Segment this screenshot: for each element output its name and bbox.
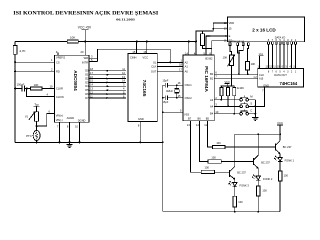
svg-text:D5: D5 — [85, 88, 89, 92]
svg-text:FONK 1: FONK 1 — [285, 158, 295, 162]
svg-text:DGND: DGND — [78, 119, 86, 123]
wire T1 collector to rail — [279, 134, 281, 141]
junction 10K bottom / PIC B3 riser — [205, 48, 207, 50]
svg-text:A0: A0 — [185, 69, 189, 73]
junction PTC on ground bus — [36, 141, 38, 143]
wire PIC B2 riser to LCD RS row — [212, 41, 228, 55]
svg-text:FONK 2: FONK 2 — [263, 177, 273, 181]
wire SL row to PIC A2 — [157, 61, 183, 63]
svg-text:4MHz: 4MHz — [166, 89, 173, 93]
svg-text:06.11.2003: 06.11.2003 — [116, 17, 135, 21]
resistor 10K (LCD pin16 to CLK row) — [246, 45, 256, 75]
LCD module body — [227, 17, 304, 42]
wires ADC bottom pins to ground bus — [60, 125, 80, 142]
ADC bottom pin stubs 7 8 10 — [57, 122, 80, 128]
wire T2 emitter down — [257, 168, 259, 176]
wire pot bottom to pull-up bar — [230, 66, 232, 86]
wire D5 row (ADC 13 to 165 4) — [89, 89, 126, 91]
svg-text:CINH: CINH — [130, 55, 136, 59]
junction rail on left ground bus — [162, 141, 164, 143]
pin 9 stub (VREF/2) — [56, 50, 66, 60]
transistor Q2 BC237 (middle) — [254, 155, 271, 168]
svg-text:BC 237: BC 237 — [237, 170, 246, 174]
svg-text:AGND: AGND — [67, 116, 75, 120]
wire PIC B0 to 74HC164 CLK — [214, 73, 258, 75]
junction VCC bus / ADC pin20 — [84, 41, 86, 43]
wire top VCC bus right of resistor — [78, 41, 196, 43]
svg-text:74HC164: 74HC164 — [280, 81, 298, 86]
resistor 100 (base T2) — [208, 155, 254, 163]
wire OSC1 row — [163, 84, 183, 86]
ADC data labels D0-D7 inside right edge — [85, 69, 89, 100]
wire PIC B1 to 74HC164 A,B — [214, 77, 258, 79]
crystal 4MHz — [166, 85, 179, 98]
svg-text:D6: D6 — [85, 92, 89, 96]
junction CS on rail — [14, 61, 16, 63]
wire T3 collector to rail — [234, 134, 236, 166]
svg-text:D4: D4 — [85, 84, 89, 88]
junction RD on rail — [14, 70, 16, 72]
svg-text:BC 237: BC 237 — [261, 160, 270, 164]
svg-text:15pF: 15pF — [162, 79, 168, 83]
wire VCC bus to PIC pin 14 VDD — [188, 42, 190, 56]
wire VCC symbol to top bus — [84, 30, 86, 42]
svg-text:10K: 10K — [34, 83, 39, 87]
svg-text:VDD: VDD — [229, 21, 235, 25]
wire D6 row (ADC 12 to 165 5) — [89, 93, 126, 95]
svg-text:VCC +5V: VCC +5V — [78, 26, 92, 30]
svg-text:A2: A2 — [185, 61, 189, 65]
wire bottom ground bus — [163, 211, 280, 213]
svg-text:V1: V1 — [25, 115, 29, 119]
svg-text:10K: 10K — [251, 62, 256, 66]
svg-text:OSC2: OSC2 — [185, 96, 193, 100]
resistor 100 (base T1) — [213, 141, 276, 149]
PIC right/top/bottom labels — [188, 56, 214, 120]
node VCC symbol for transistor rail — [277, 121, 283, 134]
svg-text:VREF/2: VREF/2 — [56, 55, 66, 59]
PIC left labels — [184, 61, 192, 117]
wire VCC bus end to PIC pin 4 MCLR and up to upper line — [196, 31, 213, 55]
svg-text:CS: CS — [56, 60, 60, 64]
resistor 100 (emitter T3) — [233, 187, 243, 212]
wire CLKIN branch — [27, 89, 55, 97]
potentiometer 10K (LCD contrast) — [223, 45, 235, 66]
junction rail on OSC2 row — [162, 97, 164, 99]
wire 74C165 pin16 to VCC bus — [146, 42, 148, 54]
transistor Q3 BC237 (bottom) — [230, 167, 247, 180]
ground symbol below AGND — [66, 142, 72, 147]
svg-text:ADC0804: ADC0804 — [73, 70, 78, 91]
svg-text:A4: A4 — [210, 104, 214, 108]
wire CS row — [15, 61, 54, 63]
wire top VCC bus left of resistor — [15, 41, 67, 43]
PIC 16F84A U3 body — [183, 55, 214, 121]
svg-text:GND: GND — [138, 117, 144, 121]
wire T2 collector to rail — [257, 134, 259, 155]
74C165 data pin numbers — [122, 67, 125, 98]
junction rail on VSS row — [162, 111, 164, 113]
crystal circuit group — [162, 79, 183, 212]
svg-text:SL: SL — [153, 61, 157, 65]
resistor 10K (ADC clock, horizontal) — [27, 83, 55, 90]
wire T3 emitter down — [234, 179, 236, 182]
svg-text:100: 100 — [262, 189, 267, 193]
74HC164 inside data numbers 8..1 — [268, 71, 297, 74]
LCD data stubs below — [268, 42, 297, 45]
svg-text:A3: A3 — [210, 98, 214, 102]
svg-text:B4: B4 — [210, 112, 214, 116]
wire 74C165 pin15 to VCC bus — [136, 42, 138, 54]
LCD bottom-left pins Vo RW VS 16 — [228, 40, 249, 46]
svg-text:VIN(-): VIN(-) — [56, 118, 63, 122]
push button S — [240, 101, 256, 107]
junction cap / CLKR / CLKIN node — [26, 88, 28, 90]
resistor 10K (MCLR pull-up, vertical) — [201, 30, 212, 48]
svg-text:E: E — [229, 34, 231, 38]
svg-text:RD: RD — [56, 70, 60, 74]
junction crystal on OSC2 row — [176, 97, 178, 99]
wire junction to ADC VIN+ — [37, 114, 55, 127]
svg-text:VCC: VCC — [143, 55, 149, 59]
node VCC symbol for button pull-ups — [224, 80, 230, 86]
wire D7 row (ADC 11 to 165 6) — [89, 97, 126, 99]
svg-text:D3: D3 — [85, 80, 89, 84]
74C165 right pin labels — [151, 61, 157, 74]
wire T1 emitter down — [279, 154, 281, 158]
LED FONK 1 — [274, 156, 294, 162]
wire D1 row (ADC 17 to 165 12) — [89, 74, 126, 76]
svg-text:150pF: 150pF — [17, 82, 25, 86]
svg-text:100: 100 — [205, 166, 210, 170]
wire left ground bus — [15, 141, 163, 143]
wire LCD RW and VS to node — [238, 45, 244, 53]
wire OSC2 row — [163, 97, 183, 99]
junction pull-up 3 on B4 row — [233, 113, 235, 115]
LED FONK 3 — [229, 181, 250, 187]
wire RD row — [15, 70, 54, 72]
wire D4 row (ADC 14 to 165 3) — [89, 85, 126, 87]
svg-text:100: 100 — [284, 174, 289, 178]
junction INTR route on SL row — [169, 61, 171, 63]
resistor 10K (top bus, horizontal) — [67, 35, 78, 42]
svg-text:C: C — [250, 109, 252, 113]
wire PIC B4 row to button C — [214, 113, 240, 115]
svg-text:B0: B0 — [210, 72, 214, 76]
LCD left pin numbers and names — [224, 21, 234, 43]
pin 20 stub (VCC) — [81, 42, 86, 56]
svg-text:D2: D2 — [85, 76, 89, 80]
wire PIC B6 pin 12 to base resistor R5 — [196, 121, 208, 162]
wire button common down — [254, 100, 256, 118]
svg-text:100: 100 — [216, 141, 221, 145]
svg-text:OUT: OUT — [151, 69, 157, 73]
svg-text:10K: 10K — [70, 35, 75, 39]
wire D0 row (ADC 18 to 165 11) — [89, 70, 126, 72]
wire D3 row (ADC 15 to 165 14) — [89, 81, 126, 83]
svg-text:A,B: A,B — [259, 76, 263, 80]
74HC164 U4 body — [258, 68, 304, 87]
wire oscillator common rail — [162, 85, 164, 212]
74HC164 GND pin 7 wire to button common — [255, 87, 265, 107]
wire PIC B7 pin 13 to base resistor R6 — [187, 121, 201, 173]
resistor 4,7K (left rail, vertical) — [13, 42, 25, 55]
wire WR/INTR tie and route to SL/A2 — [98, 49, 171, 62]
wire WR pin 3 — [89, 57, 98, 59]
svg-text:VIN(+): VIN(+) — [56, 114, 64, 118]
wire pull-up top bar — [220, 85, 234, 87]
svg-text:B7: B7 — [188, 117, 192, 121]
svg-text:VSS: VSS — [184, 112, 189, 116]
wire RW/VS node down to CLK row — [238, 53, 240, 74]
svg-text:PTC: PTC — [26, 134, 32, 138]
LCD data pin numbers 8..1 inside — [268, 38, 297, 42]
svg-text:3x10K: 3x10K — [237, 86, 245, 90]
potentiometer V1 — [25, 111, 39, 121]
junction T3 chain on bottom bus — [234, 211, 236, 213]
push button M — [240, 95, 256, 102]
wire OUT row to PIC A0 — [157, 70, 183, 72]
svg-text:ISI KONTROL DEVRESININ AÇIK DE: ISI KONTROL DEVRESININ AÇIK DEVRE ŞEMASI — [13, 12, 158, 17]
resistor 100 (emitter T1) — [278, 162, 288, 212]
svg-text:A1: A1 — [185, 65, 189, 69]
push button C — [240, 109, 256, 115]
svg-text:OSC1: OSC1 — [185, 83, 193, 87]
svg-text:4,7K: 4,7K — [19, 49, 25, 53]
capacitor 15pF upper — [162, 79, 168, 88]
svg-text:D1: D1 — [85, 73, 89, 77]
capacitor 15pF lower — [162, 95, 168, 103]
74HC164 top pin numbers — [258, 66, 296, 69]
svg-text:B1: B1 — [210, 77, 214, 81]
junction T2 chain on bottom bus — [257, 211, 259, 213]
node Vcc symbol for 74HC164 pin 14 — [258, 52, 263, 68]
wires LCD data to 74HC164 outputs — [269, 44, 296, 68]
svg-text:2 x 16 LCD: 2 x 16 LCD — [252, 27, 276, 32]
svg-text:CLK: CLK — [151, 65, 156, 69]
title text — [13, 12, 158, 22]
svg-text:INTR: INTR — [82, 61, 88, 65]
svg-text:74C165: 74C165 — [141, 80, 147, 97]
svg-text:100: 100 — [211, 155, 216, 159]
junction pull-up 1 on A3 row — [221, 99, 223, 101]
resistor network 3x10K — [220, 86, 244, 114]
svg-text:D0: D0 — [85, 69, 89, 73]
ADC data pin numbers — [90, 67, 93, 98]
svg-text:BC 237: BC 237 — [283, 145, 292, 149]
ADC0804 U1 body — [54, 55, 89, 122]
resistor 100 (emitter T2) — [256, 180, 267, 211]
wire INTR pin 5 — [89, 61, 98, 63]
transistor Q1 BC237 (top) — [276, 141, 293, 154]
svg-text:B3 B2: B3 B2 — [205, 56, 213, 60]
svg-text:WR: WR — [84, 56, 88, 60]
svg-text:VCC: VCC — [277, 121, 283, 125]
svg-text:B5: B5 — [206, 117, 210, 121]
74C165 data labels D0-D7 inside left edge — [129, 69, 133, 100]
svg-text:CLKIN: CLKIN — [56, 95, 64, 99]
wire PIC A3 row to button M — [214, 99, 240, 101]
svg-text:FONK 3: FONK 3 — [240, 184, 250, 188]
svg-text:CLKR: CLKR — [56, 87, 63, 91]
wire PIC A4 row to button S — [214, 105, 240, 107]
capacitor 150pF (ADC clock) — [14, 82, 27, 91]
74C165 U2 body — [128, 54, 157, 122]
svg-text:PIC 16F84A: PIC 16F84A — [204, 66, 209, 92]
74C165 GND pin 8 — [138, 122, 141, 144]
svg-text:10K: 10K — [223, 56, 228, 60]
wire D2 row (ADC 16 to 165 13) — [89, 78, 126, 80]
svg-text:GND: GND — [263, 83, 269, 87]
wire collector rail — [235, 133, 280, 135]
svg-text:B6: B6 — [198, 117, 202, 121]
wire PIC B3 riser to LCD E row — [206, 36, 227, 55]
ADC WR INTR labels — [82, 56, 88, 64]
svg-text:100: 100 — [238, 200, 243, 204]
wire CLK row to PIC A1 — [157, 66, 183, 68]
node VCC+5V symbol above ADC pin 20 — [78, 26, 92, 30]
data bus ADC to 74C165, 8 rows with arrows — [85, 67, 133, 100]
wire upper VCC line to LCD VDD and 15 rows — [213, 23, 227, 31]
svg-text:CLK: CLK — [259, 73, 264, 77]
junction pot/PTC/VIN+ — [36, 125, 38, 127]
resistor 100 (base T3) — [201, 166, 229, 174]
svg-text:D7: D7 — [85, 96, 89, 100]
ADC left pin labels — [56, 60, 86, 122]
wire VSS row — [163, 111, 183, 113]
ground symbol below buttons — [252, 117, 258, 120]
svg-text:S: S — [250, 101, 252, 105]
LED FONK 2 — [252, 175, 273, 181]
junction pull-up 2 on A4 row — [227, 106, 229, 108]
wire pot bottom to junction — [36, 121, 38, 126]
wire left rail down — [14, 54, 16, 142]
svg-text:15pF: 15pF — [162, 100, 168, 104]
thermistor PTC — [26, 126, 40, 140]
wire PIC B5 pin 11 to base resistor R4 — [204, 121, 212, 147]
junction crystal on OSC1 row — [176, 84, 178, 86]
wire PTC to ground bus — [36, 141, 38, 143]
node Tcp label — [34, 102, 40, 111]
